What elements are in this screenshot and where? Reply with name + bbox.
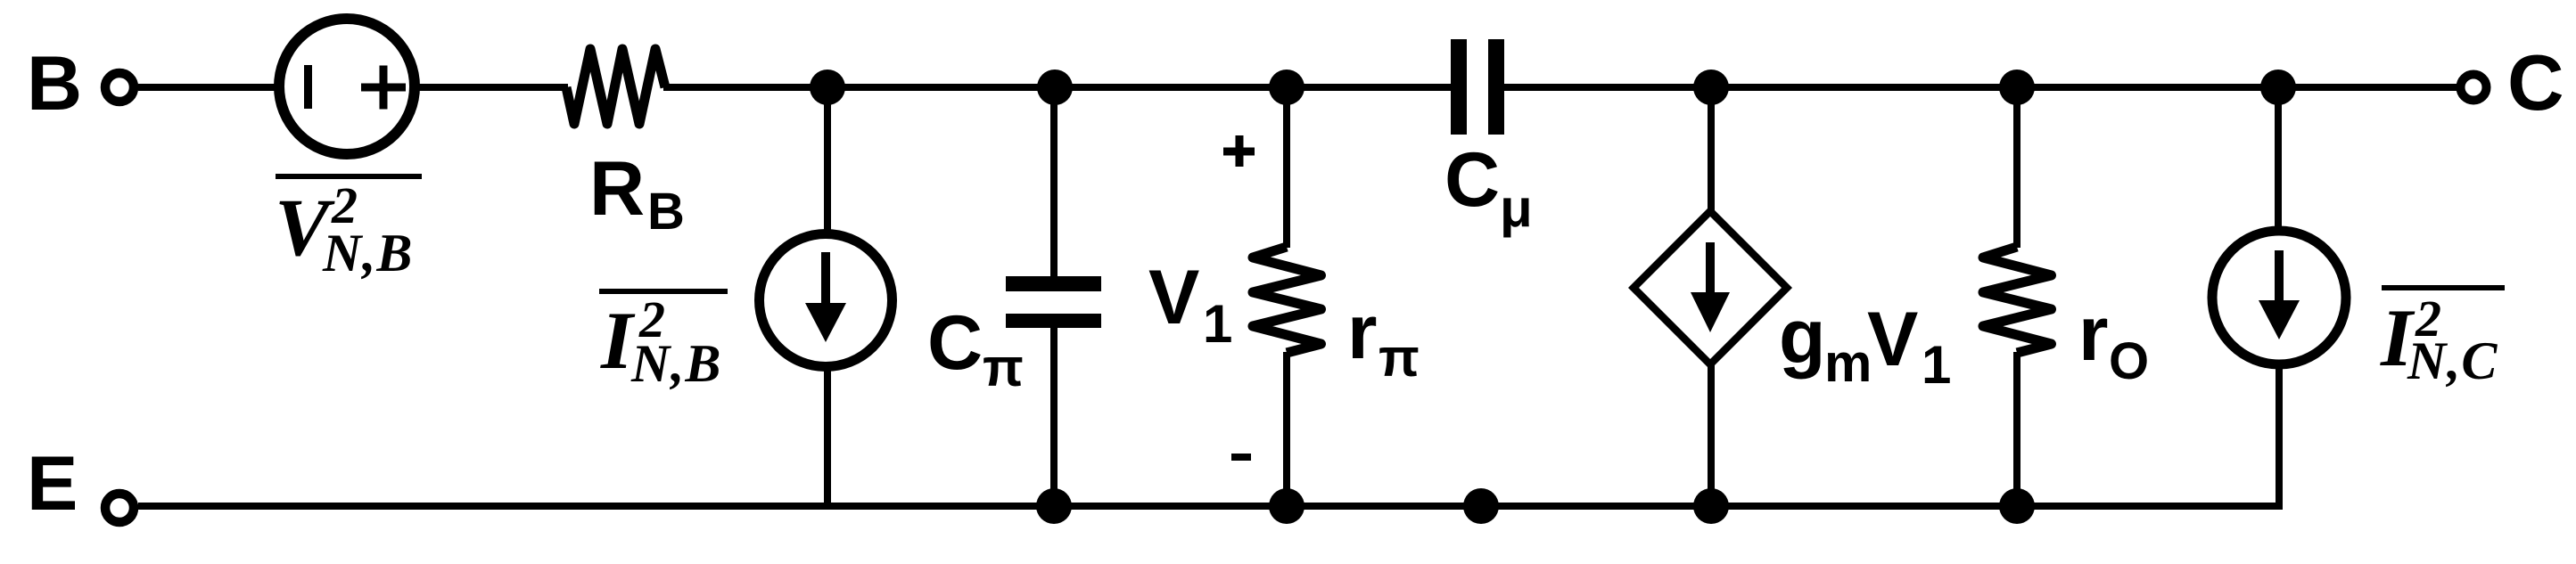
- wire RB to Cmu: [663, 84, 1453, 91]
- wire to rpi: [1283, 87, 1290, 248]
- junction rpi bottom: [1269, 488, 1304, 524]
- wire diamond to bottom: [1708, 363, 1715, 506]
- node rpi top: [1269, 69, 1304, 105]
- dependent source arrow: [1706, 242, 1715, 296]
- resistor rpi: [1253, 247, 1321, 353]
- terminal B: [105, 73, 134, 102]
- wire rO to bottom: [2013, 352, 2020, 506]
- node Cpi top: [1037, 69, 1073, 105]
- voltage source minus bar: [304, 65, 312, 109]
- svg-text:C: C: [927, 300, 983, 386]
- capacitor Cpi plates: [1006, 276, 1101, 291]
- wire to INC source: [2275, 87, 2282, 229]
- svg-text:N,B: N,B: [630, 334, 721, 393]
- svg-text:r: r: [2078, 291, 2108, 377]
- dependent source gmV1 diamond: [1634, 211, 1787, 364]
- wire INB source to bottom rail: [824, 364, 831, 506]
- terminal C: [2461, 75, 2487, 101]
- current source INB circle: [760, 234, 893, 367]
- wire to diamond: [1708, 87, 1715, 214]
- svg-text:C: C: [1444, 137, 1500, 223]
- node after RB: [810, 69, 845, 105]
- label INC squared overline: [2382, 285, 2505, 290]
- wire Cmu to C terminal: [1502, 84, 2457, 91]
- svg-text:r: r: [1347, 290, 1377, 375]
- svg-text:E: E: [27, 441, 78, 527]
- current source INC circle: [2212, 231, 2346, 364]
- label VNB squared overline: [276, 174, 422, 179]
- junction dot bottom rail mid: [1463, 488, 1499, 524]
- wire Cpi to bottom: [1050, 326, 1058, 506]
- wire voltage source to RB: [415, 84, 568, 91]
- bottom rail wire E to INC corner: [138, 503, 2283, 510]
- junction rO bottom: [1999, 488, 2035, 524]
- svg-text:B: B: [647, 183, 685, 241]
- node INC top: [2260, 69, 2296, 105]
- wire B to voltage source: [138, 84, 276, 91]
- svg-text:R: R: [589, 146, 645, 232]
- node gmV1 top: [1693, 69, 1729, 105]
- capacitor Cmu plates: [1451, 39, 1467, 135]
- svg-text:π: π: [983, 338, 1024, 397]
- svg-text:m: m: [1824, 333, 1872, 393]
- junction gmV1 bottom: [1693, 488, 1729, 524]
- terminal E: [105, 494, 134, 522]
- wire node to INB source: [824, 87, 831, 236]
- current source INC arrow: [2275, 250, 2284, 303]
- label INB squared overline: [599, 289, 728, 294]
- svg-text:O: O: [2109, 332, 2149, 390]
- svg-text:I: I: [600, 295, 636, 386]
- svg-text:N,B: N,B: [322, 224, 413, 282]
- voltage source plus sign: [361, 84, 406, 92]
- minus sign V1: [1231, 454, 1251, 461]
- svg-text:V: V: [1148, 255, 1199, 340]
- svg-text:g: g: [1779, 294, 1826, 380]
- current source INB arrow: [821, 252, 830, 306]
- svg-text:1: 1: [1203, 294, 1232, 354]
- junction Cpi bottom: [1036, 488, 1072, 524]
- wire rpi to bottom: [1283, 352, 1290, 506]
- wire to Cpi: [1050, 87, 1058, 278]
- voltage source VNB circle: [279, 19, 415, 154]
- svg-text:1: 1: [1922, 335, 1951, 395]
- wire INC source to bottom corner: [2276, 362, 2283, 510]
- svg-text:B: B: [27, 41, 82, 127]
- resistor RB: [566, 49, 665, 124]
- svg-text:μ: μ: [1500, 178, 1533, 238]
- node rO top: [1999, 69, 2035, 105]
- svg-text:π: π: [1379, 328, 1420, 388]
- svg-text:C: C: [2507, 38, 2564, 127]
- svg-text:N,C: N,C: [2407, 331, 2498, 390]
- resistor rO: [1983, 247, 2052, 353]
- plus sign V1: [1223, 148, 1255, 156]
- wire to rO: [2013, 87, 2020, 248]
- svg-text:V: V: [1867, 297, 1918, 382]
